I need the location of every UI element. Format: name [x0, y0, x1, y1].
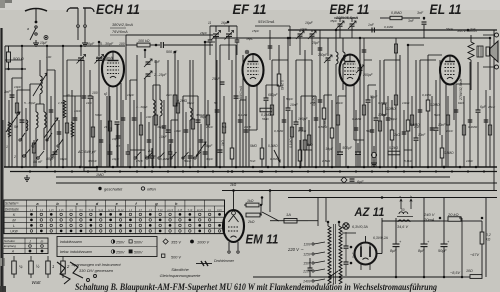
wire x22 [21, 46, 23, 167]
svg-text:a: a [27, 27, 29, 31]
svg-text:30pF: 30pF [157, 125, 165, 129]
svg-text:1A: 1A [286, 212, 291, 217]
svg-text:100: 100 [92, 91, 98, 95]
svg-text:Drehtaste: Drehtaste [5, 208, 19, 212]
wire x55 [54, 70, 56, 167]
svg-text:10nF: 10nF [244, 125, 252, 129]
more top-left marks [62, 45, 64, 47]
svg-text:g: g [154, 201, 158, 206]
wire right vertical x494 [493, 30, 495, 190]
svg-text:3nF: 3nF [408, 19, 415, 23]
tube EL11 [440, 56, 460, 85]
coil IF1 b [160, 100, 162, 116]
capacitor 200pF [358, 67, 363, 69]
svg-text:Gleichspannungswerte: Gleichspannungswerte [160, 273, 201, 278]
switch contacts bottom left [23, 155, 25, 157]
svg-text:500 V: 500 V [171, 255, 181, 259]
svg-text:380V/5mA: 380V/5mA [96, 56, 113, 60]
capacitor 25nF [220, 81, 225, 83]
svg-text:UKW: UKW [10, 229, 18, 233]
svg-text:0,2MΩ: 0,2MΩ [352, 117, 362, 121]
svg-text:0,1MΩ: 0,1MΩ [384, 25, 394, 29]
svg-text:9,14: 9,14 [98, 209, 103, 212]
scan edge reinforcement [2, 120, 4, 292]
wire x236 [235, 45, 237, 167]
svg-text:K: K [13, 213, 16, 217]
wattage resistor 1 [46, 261, 51, 274]
svg-text:L: L [13, 224, 15, 228]
trimmer 5pF [146, 61, 151, 63]
capacitor 500pF [160, 42, 162, 48]
svg-text:0,2MΩ: 0,2MΩ [177, 99, 188, 103]
wire bus y171 [10, 171, 497, 173]
capacitor 1nF top2 [371, 28, 373, 33]
switch contact row mid [134, 157, 136, 159]
resistor 1k vert [303, 140, 307, 150]
resistor 1k strip [230, 148, 234, 159]
resistor 0.2k right [480, 232, 484, 244]
capacitor 50pF lower [53, 151, 58, 153]
svg-text:55V/3mA: 55V/3mA [258, 19, 275, 24]
svg-text:5,10: 5,10 [89, 210, 94, 212]
svg-text:EL 11: EL 11 [430, 2, 462, 18]
wattage resistor 2 [61, 261, 66, 274]
svg-text:11: 11 [208, 21, 212, 25]
wire x305 [304, 50, 306, 167]
variable capacitor C tune2 [96, 57, 102, 59]
wire x183 [182, 96, 184, 167]
switch bottom [329, 276, 331, 278]
svg-text:Spannungen mit Instrument: Spannungen mit Instrument [71, 262, 121, 267]
svg-text:278V/32,5mA: 278V/32,5mA [459, 79, 463, 101]
wire x205 [204, 42, 206, 167]
switch table grid [4, 200, 225, 234]
svg-text:1,5: 1,5 [58, 101, 63, 105]
electrolytic 8uF b [423, 198, 425, 245]
svg-text:kΩ: kΩ [486, 238, 491, 242]
svg-text:10pF: 10pF [14, 85, 22, 89]
svg-text:50pF: 50pF [46, 157, 55, 161]
bottom strip extra capacitors [108, 151, 113, 153]
svg-text:0,3MΩ: 0,3MΩ [274, 129, 284, 133]
svg-text:00: 00 [401, 208, 405, 212]
tube EM11 [223, 210, 244, 242]
trimmer top 21 [213, 33, 219, 35]
capacitor 10nF EF [286, 107, 291, 109]
coil IF1 a [153, 100, 155, 116]
svg-text:380pF: 380pF [196, 113, 206, 117]
trimmer 2-25pF [146, 73, 151, 75]
svg-text:0,2MΩ: 0,2MΩ [430, 103, 440, 107]
svg-text:0,1V: 0,1V [217, 210, 222, 212]
svg-text:500μF: 500μF [342, 146, 353, 150]
svg-text:EM 11: EM 11 [246, 232, 279, 247]
capacitor 10uF strip [337, 151, 343, 153]
capacitor 68pF [115, 121, 120, 123]
wire x107 [106, 96, 108, 167]
capacitor 50pF EBF [366, 99, 371, 101]
svg-text:25nF: 25nF [211, 77, 221, 81]
svg-text:15pF: 15pF [252, 29, 260, 33]
wire rail top y38 [213, 37, 490, 39]
resistor 0.1M EBF [322, 108, 326, 119]
legend square 500V [162, 254, 165, 257]
svg-text:10kΩ: 10kΩ [402, 101, 410, 105]
svg-text:Schaltung B. Blaupunkt-AM-FM-S: Schaltung B. Blaupunkt-AM-FM-Superhet MU… [75, 282, 437, 292]
mains cord zigzag [57, 262, 70, 284]
resistor 0.1M [260, 108, 272, 112]
svg-text:110V: 110V [304, 242, 312, 246]
svg-text:0,2MΩ: 0,2MΩ [280, 80, 284, 91]
tuning arrow long left2 [44, 118, 58, 138]
trimmer top 22 [226, 33, 232, 35]
svg-text:0,5: 0,5 [116, 144, 121, 148]
coil left low spring [8, 122, 11, 137]
svg-text:10μF: 10μF [325, 147, 334, 151]
wire x220 [219, 45, 221, 167]
legend diamond 355V [163, 239, 168, 244]
svg-text:0,1MΩ: 0,1MΩ [238, 113, 248, 117]
svg-text:35pF: 35pF [246, 37, 254, 41]
svg-text:1: 1 [6, 145, 8, 149]
svg-text:ΔC 540 μF: ΔC 540 μF [77, 150, 97, 154]
svg-text:30: 30 [66, 93, 70, 97]
svg-text:1,5kΩ: 1,5kΩ [322, 159, 331, 163]
svg-text:10μF: 10μF [112, 137, 120, 141]
switch table frame [4, 200, 225, 234]
trimmer pair EBF top [338, 23, 343, 25]
svg-text:0,2MΩ: 0,2MΩ [386, 107, 396, 111]
svg-text:1000 V: 1000 V [197, 240, 210, 244]
svg-text:5...30pF: 5...30pF [24, 101, 36, 105]
svg-text:A: A [11, 250, 14, 254]
resistor 5.2k strip [388, 151, 400, 155]
svg-text:11,13: 11,13 [167, 210, 173, 212]
wire group extra verticals left [8, 100, 10, 167]
resistor 0.2M vertical [173, 95, 177, 106]
svg-text:500V: 500V [134, 250, 143, 254]
svg-text:10μF: 10μF [40, 41, 48, 45]
svg-text:1,15: 1,15 [49, 210, 54, 212]
svg-text:100: 100 [119, 42, 125, 46]
svg-text:5...30pF: 5...30pF [100, 42, 114, 46]
antenna A1 [25, 9, 47, 12]
svg-text:4,15: 4,15 [59, 209, 64, 212]
svg-text:10nF: 10nF [466, 159, 474, 163]
tube EF11 [243, 54, 264, 86]
svg-text:10nF: 10nF [438, 123, 446, 127]
wire bottom y277 [253, 276, 462, 278]
arrow b [410, 199, 412, 209]
junction dots [21, 166, 24, 169]
ground symbol mid [26, 175, 28, 178]
top left corner smudge [0, 0, 12, 3]
legend geschaltet [98, 187, 101, 190]
svg-text:330 Ω/V gemessen: 330 Ω/V gemessen [79, 268, 114, 273]
wire bus y167 [4, 166, 497, 168]
svg-text:1kΩ: 1kΩ [166, 93, 172, 97]
IF transformer EBF coil a [336, 52, 338, 64]
svg-text:0,3MΩ: 0,3MΩ [268, 144, 278, 148]
svg-text:Schalter: Schalter [4, 239, 16, 243]
coil L2 transformer [36, 112, 38, 128]
svg-text:30pF: 30pF [205, 144, 213, 148]
top right band components [269, 30, 271, 60]
tube ECH11 [102, 52, 124, 87]
tube AZ11 anodes [360, 247, 362, 258]
svg-text:0,5MΩ: 0,5MΩ [318, 125, 328, 129]
svg-text:0,4MΩ: 0,4MΩ [468, 125, 478, 129]
svg-text:50pF: 50pF [370, 95, 378, 99]
power transformer core [333, 224, 335, 284]
power transformer primary winding [328, 226, 331, 284]
svg-text:20 kΩ: 20 kΩ [447, 212, 459, 217]
svg-text:10pF: 10pF [300, 27, 308, 31]
IF transformer EBF coil b [343, 52, 345, 64]
svg-text:bekw. induktivssarm: bekw. induktivssarm [60, 250, 92, 254]
tube ECH11 pins [108, 87, 110, 168]
capacitor 96pF [196, 119, 201, 121]
svg-text:5kΩ: 5kΩ [434, 113, 440, 117]
svg-text:1kΩ: 1kΩ [247, 199, 254, 203]
wire x490 top [489, 38, 491, 90]
svg-text:ECH 11: ECH 11 [96, 2, 140, 18]
wire supply box EF [255, 25, 290, 27]
wire x175 [174, 52, 176, 167]
tube EM11 leads [233, 191, 235, 211]
svg-text:geschaltet: geschaltet [104, 187, 123, 192]
svg-text:1MΩ: 1MΩ [96, 173, 104, 177]
svg-text:10nF: 10nF [159, 135, 168, 139]
svg-text:680pF: 680pF [268, 93, 279, 97]
svg-text:offen: offen [147, 187, 157, 192]
svg-text:5MΩ: 5MΩ [262, 117, 269, 121]
svg-text:5,2kΩ: 5,2kΩ [389, 146, 398, 150]
dipole antenna [70, 7, 78, 9]
svg-text:25nF: 25nF [487, 105, 496, 109]
resistor 2k EM [246, 213, 260, 217]
tuning arrow through L1 [33, 73, 47, 96]
svg-text:5pF: 5pF [154, 60, 161, 64]
trimmer symbol legend [196, 263, 212, 265]
wire x145 [144, 50, 146, 58]
coil L4 spring [71, 122, 74, 137]
svg-text:56pF: 56pF [446, 27, 454, 31]
svg-text:EF 11: EF 11 [233, 2, 267, 18]
switch table dots [30, 213, 33, 216]
capacitor 6pF legend [341, 177, 347, 183]
svg-text:10pF: 10pF [127, 93, 135, 97]
svg-text:2...25pF: 2...25pF [153, 73, 167, 77]
svg-text:2kΩ: 2kΩ [393, 133, 400, 137]
wire HT rail top y30 [288, 29, 497, 31]
wire transformer feed [317, 198, 319, 227]
coil osc [190, 108, 192, 120]
svg-text:10Ω: 10Ω [466, 269, 473, 273]
svg-text:10nF: 10nF [174, 129, 182, 133]
wire input column x5 [4, 46, 6, 167]
wire bus y197 right [288, 197, 497, 199]
wattage resistor 1/4 [12, 261, 17, 274]
coil L3 spring [63, 100, 66, 118]
svg-text:3nF: 3nF [417, 11, 424, 15]
legend dot 1000V [190, 240, 194, 244]
svg-text:35pF: 35pF [330, 19, 338, 23]
svg-text:6kΩ: 6kΩ [458, 101, 464, 105]
svg-text:30pF: 30pF [206, 157, 214, 161]
wire x243 [242, 55, 244, 167]
voltage selector taps [312, 243, 314, 245]
capacitor 500uF strip [355, 151, 361, 153]
svg-text:4,15: 4,15 [178, 209, 183, 212]
caps beside trimmer group [208, 39, 213, 41]
svg-text:5,10: 5,10 [188, 210, 193, 212]
wire x47 [46, 46, 48, 167]
svg-text:0,2: 0,2 [486, 233, 491, 237]
svg-text:50pF: 50pF [390, 117, 398, 121]
svg-text:50pF: 50pF [286, 97, 294, 101]
extra junction dots [80, 45, 83, 48]
heater winding AZ [399, 212, 408, 214]
tuning arrow mid [196, 142, 206, 156]
coil L1 [40, 76, 42, 94]
svg-text:m: m [41, 239, 44, 243]
wire x126 vertical [125, 35, 127, 100]
svg-text:3nF: 3nF [4, 90, 11, 94]
svg-text:220 V ∼: 220 V ∼ [287, 247, 304, 252]
svg-text:25nF: 25nF [135, 159, 144, 163]
dial lamp [343, 223, 349, 229]
svg-text:Drahtrimmer: Drahtrimmer [214, 259, 235, 263]
svg-text:10μF: 10μF [112, 157, 120, 161]
resistor 20k [448, 217, 461, 222]
resistor 0.2M EBF2 [382, 104, 386, 115]
svg-text:2: 2 [13, 155, 16, 159]
svg-text:250V: 250V [115, 240, 125, 244]
electrolytic 50uF [443, 198, 445, 245]
tuning arrow long left [6, 112, 20, 132]
scan edge dark strip left [0, 28, 2, 292]
resistor 500ohm [7, 52, 11, 62]
svg-text:1: 1 [52, 264, 54, 269]
wire bus y183 [56, 182, 497, 184]
svg-text:5MΩ: 5MΩ [366, 129, 373, 133]
svg-text:26: 26 [103, 125, 108, 129]
capacitor 100pF EF [294, 121, 299, 123]
svg-text:11,14: 11,14 [118, 209, 124, 212]
capacitor small [234, 95, 239, 97]
output transformer primary coil [468, 42, 474, 60]
svg-text:½: ½ [36, 264, 40, 269]
svg-text:0,5MΩ: 0,5MΩ [444, 151, 454, 155]
svg-text:0,3MΩ: 0,3MΩ [378, 101, 388, 105]
svg-text:5,10: 5,10 [158, 210, 163, 212]
svg-text:2kΩ: 2kΩ [247, 220, 255, 224]
switch antenna [35, 26, 37, 28]
resistor 0.2M EL [426, 100, 430, 111]
svg-text:0,3MΩ: 0,3MΩ [270, 157, 280, 161]
svg-text:50nF: 50nF [184, 159, 192, 163]
svg-text:−67V: −67V [470, 253, 479, 257]
svg-text:10nF: 10nF [74, 109, 82, 113]
svg-text:34,6 V: 34,6 V [397, 225, 408, 229]
svg-text:6pF: 6pF [357, 180, 364, 184]
left band extra links [5, 59, 22, 61]
resistor 0.1M strip [298, 150, 302, 161]
svg-text:Empfang: Empfang [4, 244, 16, 248]
svg-text:76V/6mA: 76V/6mA [112, 30, 128, 34]
wire x168 [167, 60, 169, 167]
svg-text:100: 100 [46, 55, 51, 59]
jack circle [371, 152, 376, 157]
EF top right IF transformer trimmers [298, 33, 303, 35]
capacitor 50nF strip [218, 149, 223, 151]
capacitor bottom 5nF [308, 267, 313, 269]
capacitor 3nF top [422, 21, 427, 23]
svg-text:50μF: 50μF [438, 249, 447, 253]
svg-text:1nF: 1nF [368, 23, 375, 27]
wire x72 [71, 90, 73, 167]
wire mains diagonal [262, 212, 279, 221]
capacitor 10nF EL [434, 127, 439, 129]
wire 20k to right [470, 220, 482, 222]
svg-text:10nF: 10nF [290, 103, 299, 107]
svg-text:24,25: 24,25 [196, 209, 204, 212]
svg-text:56 nF: 56 nF [33, 160, 43, 164]
wire top-left y46 [5, 45, 125, 47]
capacitor 50pF [20, 119, 25, 121]
svg-text:−8,5V: −8,5V [450, 271, 460, 275]
label 0.8M top [390, 16, 402, 19]
svg-text:380pF: 380pF [88, 159, 98, 163]
resistor 10ohm [470, 275, 482, 279]
fuse 1A [284, 219, 297, 224]
wattage resistor 1/2 [29, 261, 34, 274]
svg-text:12,13: 12,13 [108, 210, 115, 212]
wire x198 [197, 96, 199, 167]
tube EBF11 [340, 55, 361, 86]
tube EBF11 pins [345, 85, 347, 167]
terminal circles right [495, 33, 499, 37]
wire bus y190 [222, 190, 497, 192]
svg-text:AZ 11: AZ 11 [354, 205, 385, 219]
resistor 0.5M EL [440, 148, 444, 158]
power transformer secondary winding [339, 226, 342, 284]
svg-text:¼: ¼ [19, 264, 23, 269]
wire x30 [29, 84, 31, 167]
resistor 1M horizontal [84, 168, 97, 172]
resistor 1M EBF [330, 128, 334, 138]
svg-text:228V/5,5mA: 228V/5,5mA [335, 15, 358, 20]
component glyph scatter [15, 103, 18, 113]
short link wires [63, 95, 81, 97]
svg-text:100 kΩ: 100 kΩ [138, 39, 150, 43]
svg-text:1kΩ: 1kΩ [230, 183, 237, 187]
svg-text:16pF: 16pF [305, 21, 314, 25]
svg-text:96pF: 96pF [60, 157, 68, 161]
svg-text:100pF: 100pF [298, 117, 309, 121]
tube AZ11 envelope [355, 243, 377, 265]
svg-text:100: 100 [146, 115, 151, 119]
resistor 1k EM [246, 203, 259, 207]
filament caps right of transformer [344, 245, 349, 247]
legend box induktiv [57, 237, 157, 257]
capacitor 10uF circled [44, 36, 48, 40]
svg-text:induktivssarm: induktivssarm [60, 240, 82, 244]
svg-text:0,1MΩ: 0,1MΩ [422, 93, 432, 97]
svg-text:125V: 125V [303, 252, 312, 256]
capacitor 680pF [264, 97, 269, 99]
